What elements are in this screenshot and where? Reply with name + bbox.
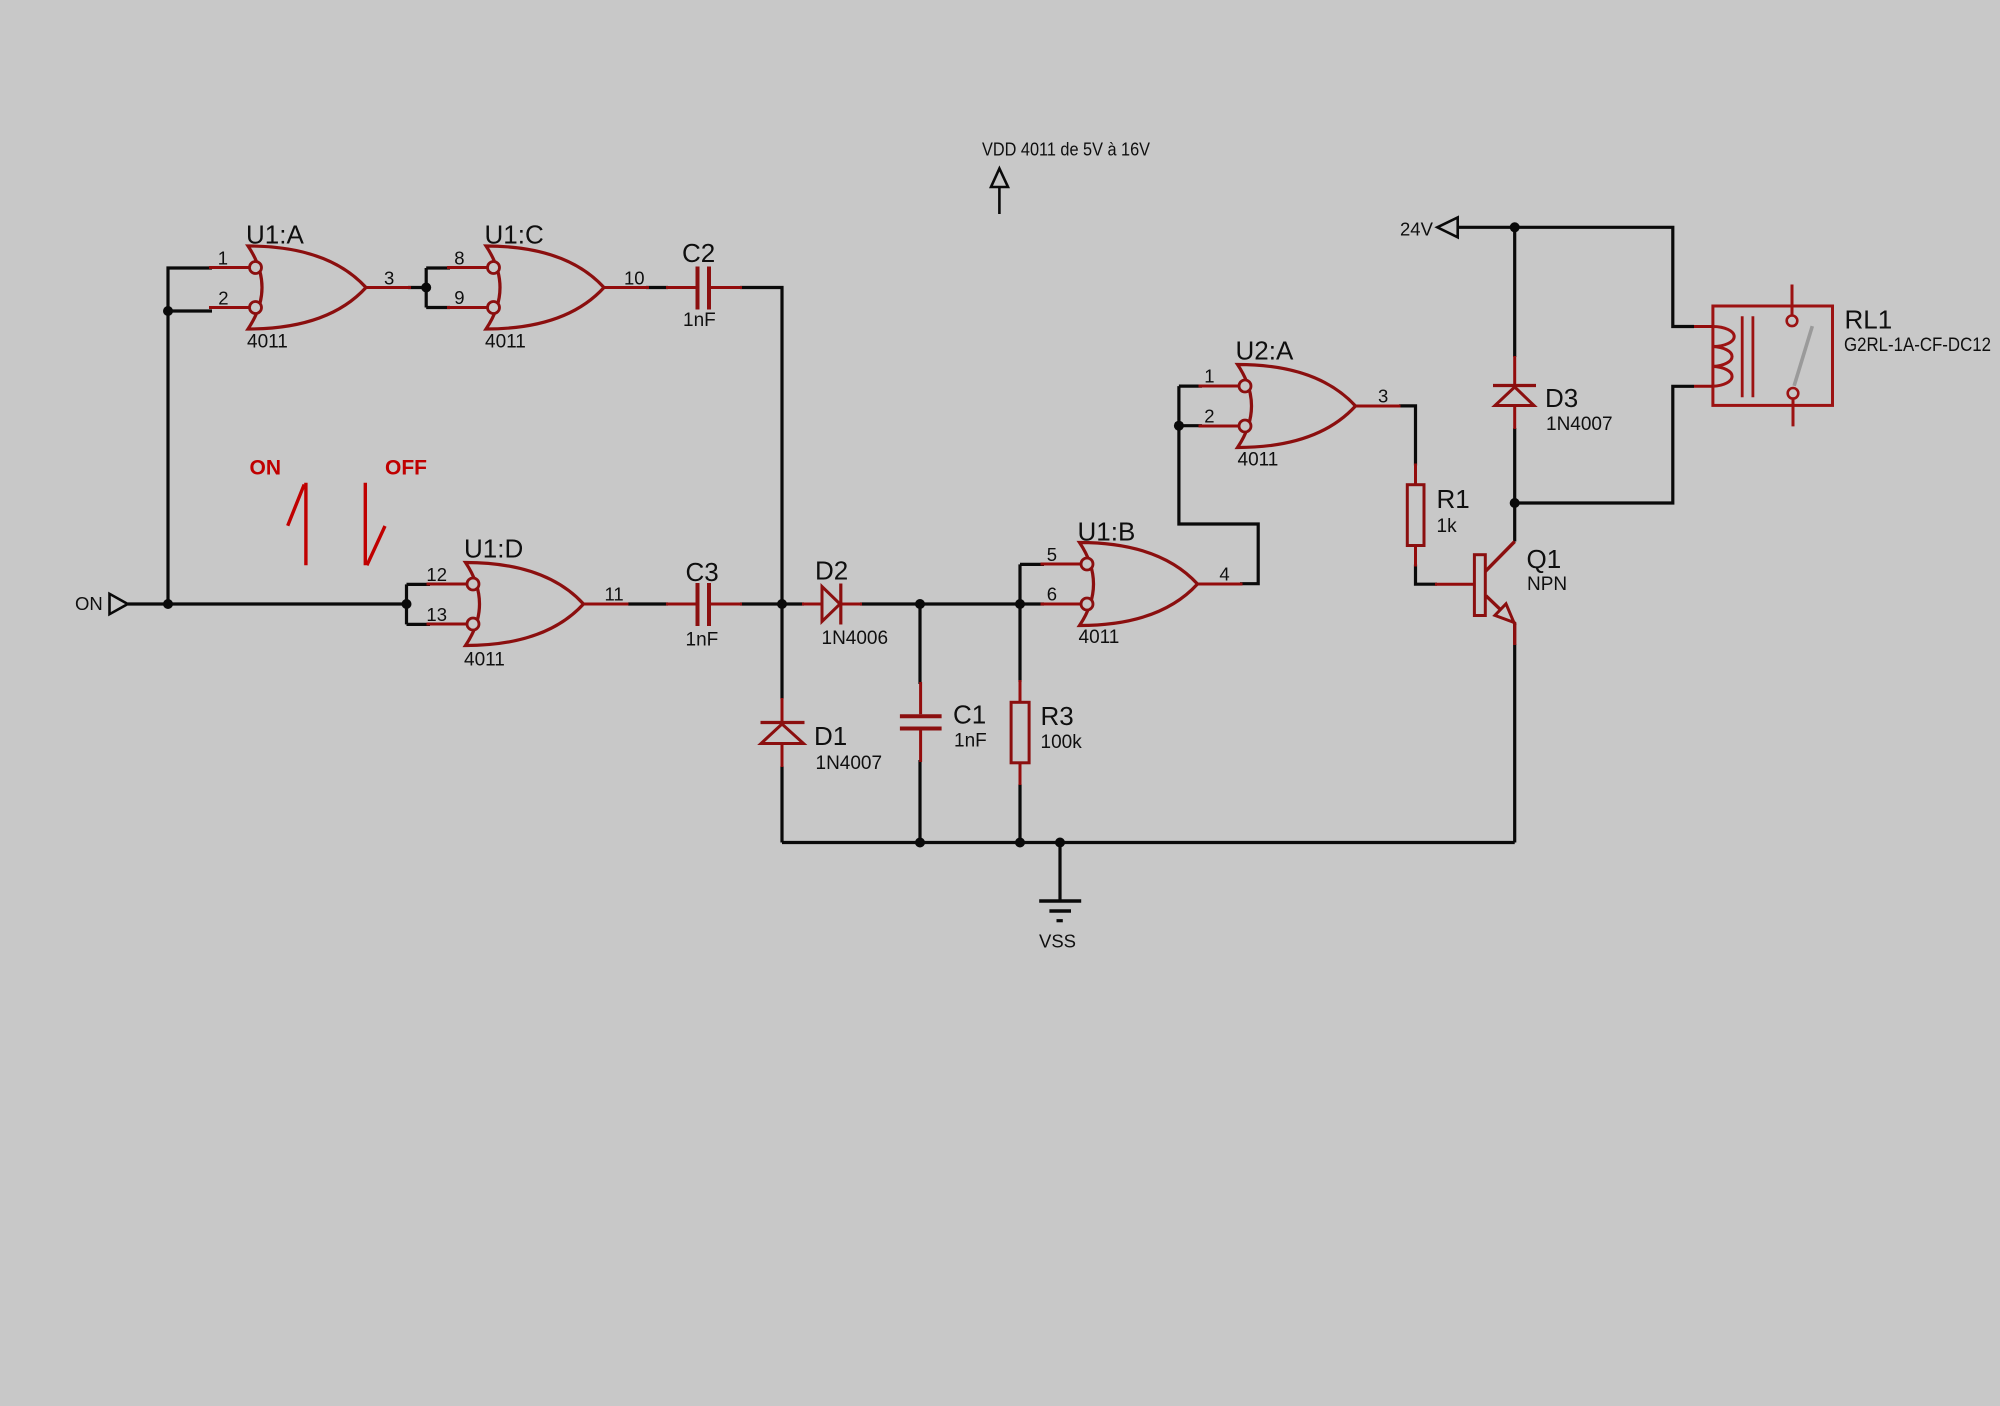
svg-text:4011: 4011 bbox=[247, 332, 288, 353]
svg-text:C1: C1 bbox=[953, 700, 986, 730]
svg-text:RL1: RL1 bbox=[1845, 305, 1893, 335]
svg-text:1nF: 1nF bbox=[686, 630, 719, 651]
svg-text:U1:B: U1:B bbox=[1078, 517, 1136, 547]
svg-text:9: 9 bbox=[454, 287, 464, 308]
svg-text:3: 3 bbox=[384, 268, 394, 289]
svg-text:10: 10 bbox=[624, 268, 645, 289]
svg-text:1N4007: 1N4007 bbox=[1546, 414, 1613, 435]
svg-text:C2: C2 bbox=[682, 238, 715, 268]
svg-text:1: 1 bbox=[218, 248, 228, 269]
svg-text:5: 5 bbox=[1047, 544, 1057, 565]
svg-text:ON: ON bbox=[75, 593, 103, 614]
svg-text:D2: D2 bbox=[815, 556, 848, 586]
svg-text:VDD 4011 de 5V à 16V: VDD 4011 de 5V à 16V bbox=[982, 139, 1151, 160]
svg-text:VSS: VSS bbox=[1039, 931, 1076, 952]
svg-text:100k: 100k bbox=[1041, 732, 1083, 753]
svg-text:12: 12 bbox=[426, 564, 447, 585]
svg-text:3: 3 bbox=[1378, 386, 1388, 407]
svg-text:R3: R3 bbox=[1041, 701, 1074, 731]
svg-text:4011: 4011 bbox=[1079, 627, 1120, 648]
svg-text:1nF: 1nF bbox=[683, 310, 716, 331]
svg-text:6: 6 bbox=[1047, 584, 1057, 605]
svg-text:D3: D3 bbox=[1545, 383, 1578, 413]
svg-text:4011: 4011 bbox=[1238, 450, 1279, 471]
svg-text:G2RL-1A-CF-DC12: G2RL-1A-CF-DC12 bbox=[1844, 335, 1991, 356]
svg-text:D1: D1 bbox=[814, 721, 847, 751]
svg-text:1N4007: 1N4007 bbox=[816, 753, 883, 774]
svg-text:1N4006: 1N4006 bbox=[822, 628, 889, 649]
svg-text:8: 8 bbox=[454, 248, 464, 269]
svg-text:24V: 24V bbox=[1400, 219, 1434, 240]
svg-text:4011: 4011 bbox=[485, 332, 526, 353]
svg-text:2: 2 bbox=[218, 288, 228, 309]
svg-text:1: 1 bbox=[1204, 366, 1214, 387]
svg-text:R1: R1 bbox=[1437, 484, 1470, 514]
svg-text:U1:D: U1:D bbox=[464, 534, 523, 564]
svg-text:U1:A: U1:A bbox=[246, 220, 304, 250]
svg-text:C3: C3 bbox=[686, 557, 719, 587]
svg-text:U1:C: U1:C bbox=[485, 220, 544, 250]
svg-text:13: 13 bbox=[426, 604, 447, 625]
svg-text:ON: ON bbox=[250, 457, 282, 480]
svg-text:2: 2 bbox=[1204, 406, 1214, 427]
svg-text:Q1: Q1 bbox=[1527, 544, 1562, 574]
svg-text:OFF: OFF bbox=[385, 457, 427, 480]
svg-text:4: 4 bbox=[1219, 564, 1229, 585]
svg-text:1k: 1k bbox=[1437, 516, 1458, 537]
svg-text:NPN: NPN bbox=[1527, 574, 1567, 595]
svg-text:11: 11 bbox=[605, 584, 624, 605]
svg-text:U2:A: U2:A bbox=[1236, 336, 1294, 366]
svg-text:4011: 4011 bbox=[464, 650, 505, 671]
svg-text:1nF: 1nF bbox=[954, 731, 987, 752]
